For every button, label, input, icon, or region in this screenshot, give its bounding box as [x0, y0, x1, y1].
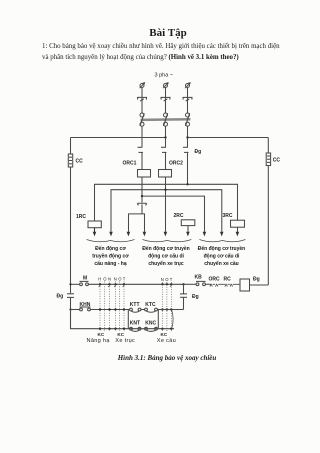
wire phase1 drop: [141, 87, 143, 113]
page title: [8, 27, 320, 39]
knife switch pole 2: [164, 113, 168, 126]
svg-text:N: N: [108, 277, 111, 282]
right rail continues: [267, 166, 269, 286]
bus right segment: [188, 137, 269, 139]
knife switch pole 1: [140, 113, 144, 126]
overcurrent relay coil ORC1: [138, 170, 151, 178]
label O: [103, 277, 107, 282]
svg-text:3RC: 3RC: [223, 213, 233, 219]
knife switch linkage bar: [141, 118, 191, 121]
limit switch KNT: [130, 327, 141, 331]
label Dg (self-hold): [192, 294, 199, 300]
label O: [165, 277, 169, 282]
label Xe cau: [157, 338, 176, 344]
svg-text:truyền động cơ: truyền động cơ: [92, 254, 129, 260]
label T: [170, 277, 173, 282]
thermal element symbol on phase1: [137, 203, 146, 205]
wire phase1 below ORC1: [141, 177, 143, 203]
net label: 3 pha ~: [155, 73, 174, 79]
label Nang ha: [87, 338, 111, 344]
distribution line C (phase 1): [142, 196, 205, 232]
node row1/self-hold: [182, 283, 184, 285]
controller KC3 dashed columns: [162, 282, 171, 332]
pushbutton M: [80, 281, 89, 285]
disconnect plug P2 (phase 2): [163, 82, 169, 88]
left control rail: [70, 138, 72, 155]
svg-text:N: N: [114, 277, 117, 282]
row3 controller dots: [99, 328, 173, 330]
node bus/phase3: [186, 136, 188, 138]
row1 contact ticks: [99, 286, 172, 288]
controller KC1 dashed columns: [100, 282, 110, 333]
svg-text:ORC2: ORC2: [169, 161, 183, 167]
overload relay coil 3RC: [231, 220, 245, 232]
label KC 3: [161, 332, 168, 337]
wire phase3 to bus: [187, 126, 189, 138]
label ORC1: [123, 161, 137, 167]
disconnect plug P1 (phase 1): [140, 82, 146, 88]
svg-text:Nâng hạ: Nâng hạ: [87, 338, 111, 344]
label KC 2: [117, 332, 124, 337]
node rail/row1: [69, 283, 71, 285]
right control rail upper: [267, 138, 269, 154]
label CC left: [76, 159, 84, 165]
exercise paragraph: [42, 41, 292, 63]
svg-text:N: N: [161, 277, 164, 282]
controller KC2 dashed columns: [116, 282, 125, 333]
svg-text:KC: KC: [161, 332, 168, 337]
svg-text:KNC: KNC: [145, 321, 156, 327]
svg-text:KNT: KNT: [130, 321, 140, 327]
overload relay coil 1RC: [88, 221, 101, 232]
row2 wire: [90, 309, 129, 311]
label Xe truc: [115, 338, 135, 344]
row2 controller dots: [99, 308, 173, 310]
svg-text:Xe cầu: Xe cầu: [157, 338, 176, 344]
row1 controller contacts (dots): [99, 283, 173, 285]
wire phase2 to bus: [165, 126, 167, 138]
label Dg (main contacts): [195, 149, 202, 155]
svg-text:ORC: ORC: [209, 277, 221, 283]
row2 wire right: [157, 309, 171, 311]
svg-text:Đg: Đg: [195, 149, 202, 155]
label KTC: [145, 302, 156, 308]
contactor Dg main contact phase3: [183, 138, 189, 185]
branch connector right: [157, 310, 159, 329]
label KHN: [80, 302, 91, 308]
svg-text:CC: CC: [76, 159, 84, 165]
svg-text:O: O: [118, 277, 122, 282]
svg-text:chuyển xe cầu: chuyển xe cầu: [204, 260, 238, 267]
wire phase1 branch tee: [129, 204, 145, 232]
label N: [161, 277, 164, 282]
node frameB/phase2: [164, 189, 166, 191]
motor caption 1: [92, 245, 129, 267]
fuse F2 (phase 2): [161, 97, 171, 101]
svg-text:ORC1: ORC1: [123, 161, 137, 167]
limit switch KTT: [130, 308, 141, 312]
label CC right: [273, 158, 281, 164]
svg-text:Đến động cơ truyền: Đến động cơ truyền: [198, 245, 245, 252]
wire phase2 drop: [165, 87, 167, 113]
label 2RC: [174, 213, 184, 219]
contact KHN: [71, 307, 91, 311]
svg-text:T: T: [123, 277, 126, 282]
limit switch KNC: [145, 327, 158, 331]
connector KC3 T-column row2-row3: [172, 310, 174, 329]
wire phase2 below ORC2: [165, 177, 167, 232]
underbrace group 3: [199, 240, 245, 242]
svg-text:RC: RC: [224, 277, 232, 283]
node lineC/phase1: [141, 195, 143, 197]
svg-text:KC: KC: [117, 332, 124, 337]
label M: [83, 276, 87, 282]
label N: [108, 277, 111, 282]
label 3RC: [223, 213, 233, 219]
svg-text:Xe trục: Xe trục: [115, 338, 135, 344]
underbrace group 1: [87, 240, 135, 242]
label T: [123, 277, 126, 282]
row1 wire to columns: [88, 283, 183, 285]
svg-text:động cơ cấu di: động cơ cấu di: [204, 253, 240, 260]
label KB: [195, 275, 203, 281]
svg-text:Đg: Đg: [192, 294, 199, 300]
svg-text:Đg: Đg: [253, 277, 260, 283]
figure caption: [0, 354, 320, 362]
svg-text:Đến động cơ: Đến động cơ: [95, 245, 126, 252]
contactor Dg main contact phase1: [138, 138, 144, 170]
svg-text:M: M: [83, 276, 87, 282]
distribution frame B (phase 2): [111, 190, 222, 232]
node bus/phase2: [164, 136, 166, 138]
label Dg (left aux): [57, 294, 64, 300]
wire KTT-KTC: [141, 309, 145, 311]
svg-text:KB: KB: [195, 275, 203, 281]
label N: [114, 277, 117, 282]
svg-text:O: O: [103, 277, 107, 282]
motor caption 3: [198, 245, 245, 267]
pushbutton KB: [184, 281, 206, 285]
svg-text:O: O: [165, 277, 169, 282]
fuse CC left: [68, 154, 72, 167]
disconnect plug P3 (phase 3): [185, 82, 191, 88]
left rail continues: [70, 167, 72, 293]
svg-text:CC: CC: [273, 158, 281, 164]
control row 1 wire: [71, 283, 80, 285]
svg-text:cấu nâng - hạ: cấu nâng - hạ: [94, 260, 126, 267]
overload relay coil 2RC: [181, 220, 195, 232]
fuse CC right: [266, 153, 270, 166]
fuse F3 (phase 3): [183, 97, 193, 101]
label KTT: [130, 302, 140, 308]
bottom rail: [71, 310, 175, 329]
node frameA/phase3: [186, 183, 188, 185]
fuse F1 (phase 1): [137, 97, 147, 101]
svg-text:Đến động cơ truyền: Đến động cơ truyền: [142, 245, 189, 252]
label H: [98, 277, 101, 282]
limit switch KTC: [145, 308, 158, 312]
feeder arrows group 3: [203, 232, 240, 237]
label 1RC: [76, 214, 86, 220]
underbrace group 2: [143, 240, 192, 242]
svg-text:động cơ cấu di: động cơ cấu di: [148, 253, 184, 260]
svg-text:1RC: 1RC: [76, 214, 86, 220]
contactor Dg main contact phase2: [161, 138, 167, 170]
knife switch pole 3: [186, 113, 190, 126]
svg-text:KTC: KTC: [145, 302, 156, 308]
svg-text:Đg: Đg: [57, 294, 64, 300]
motor caption 2: [142, 245, 189, 267]
svg-text:2RC: 2RC: [174, 213, 184, 219]
contactor coil Dg: [240, 279, 250, 291]
label KNC: [145, 321, 156, 327]
wire phase3 drop: [187, 87, 189, 113]
label O: [118, 277, 122, 282]
label Dg (coil): [253, 277, 260, 283]
wire phase1 to bus: [141, 126, 143, 138]
svg-text:H: H: [98, 277, 101, 282]
label RC: [224, 277, 232, 283]
svg-text:3 pha ~: 3 pha ~: [155, 73, 174, 79]
self-hold branch wire: [171, 284, 187, 309]
svg-text:T: T: [170, 277, 173, 282]
wire coil to right rail: [250, 284, 269, 286]
svg-text:KTT: KTT: [130, 302, 140, 308]
overcurrent relay coil ORC2: [159, 170, 172, 178]
aux contact Dg on left rail: [67, 294, 74, 329]
label ORC: [209, 277, 221, 283]
label KNT: [130, 321, 140, 327]
NC contact ORC: [205, 284, 225, 287]
branch connector left: [127, 310, 129, 329]
distribution frame A (phase 3): [95, 184, 238, 221]
label ORC2: [169, 161, 183, 167]
svg-text:chuyển xe trục: chuyển xe trục: [148, 260, 184, 267]
label KC 1: [98, 332, 105, 337]
node rail/row2: [69, 308, 71, 310]
feeder arrows group 2: [143, 232, 190, 237]
bus left segment: [71, 137, 166, 139]
svg-text:KC: KC: [98, 332, 105, 337]
NC contact RC: [225, 284, 240, 287]
feeder arrows group 1: [93, 228, 131, 237]
